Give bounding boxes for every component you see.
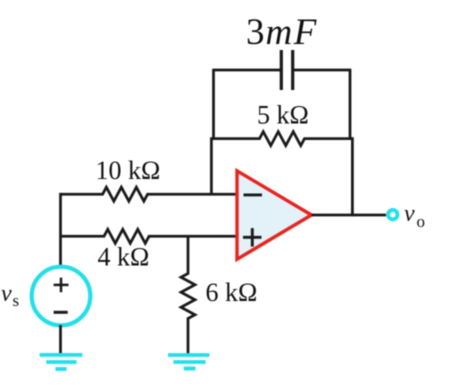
- svg-text:3mF: 3mF: [246, 12, 318, 53]
- svg-text:o: o: [417, 212, 426, 231]
- ground (left, under vs): [40, 353, 83, 357]
- wire top-left to capacitor: [214, 69, 282, 72]
- resistor R 6 kOhm (vertical): [181, 274, 195, 319]
- resistor R 10 kOhm with inverting input wire: [61, 187, 238, 201]
- terminal vo: [388, 210, 397, 219]
- voltage source vs circle: [32, 267, 91, 326]
- resistor R 4 kOhm with non-inverting input wire: [61, 229, 238, 243]
- vs minus sign: [54, 311, 68, 314]
- svg-text:v: v: [1, 281, 12, 307]
- resistor R 5 kOhm: [211, 132, 352, 146]
- op-amp U1 triangle: [237, 171, 312, 259]
- wire 5k-loop left vertical: [210, 137, 213, 195]
- vs plus sign: [54, 284, 69, 287]
- wire op-amp output: [312, 214, 387, 217]
- svg-text:6 kΩ: 6 kΩ: [206, 278, 258, 307]
- svg-text:5 kΩ: 5 kΩ: [257, 101, 309, 130]
- wire 6k branch upper: [187, 235, 190, 275]
- wire 6k to ground: [187, 318, 190, 354]
- wire source to ground: [59, 325, 62, 354]
- svg-text:s: s: [13, 291, 20, 310]
- wire cap-loop right vertical: [349, 69, 352, 140]
- op-amp plus input sign: [243, 236, 262, 239]
- svg-text:10 kΩ: 10 kΩ: [96, 156, 161, 185]
- svg-text:4 kΩ: 4 kΩ: [98, 242, 150, 271]
- op-amp minus input sign: [244, 193, 263, 196]
- wire capacitor to top-right: [293, 69, 350, 72]
- wire 5k-loop right vertical to output: [351, 137, 354, 216]
- svg-text:v: v: [404, 201, 415, 227]
- capacitor C 3mF plates: [280, 50, 283, 90]
- ground (right, under 6k): [168, 353, 209, 357]
- wire source left vertical: [59, 193, 62, 267]
- wire cap-loop left vertical: [212, 69, 215, 140]
